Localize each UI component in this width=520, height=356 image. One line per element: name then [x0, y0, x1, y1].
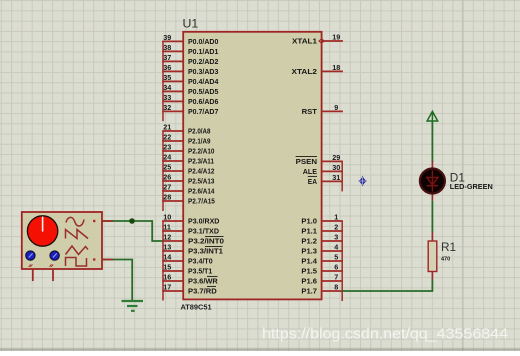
- svg-text:22: 22: [163, 133, 171, 142]
- svg-text:P0.2/AD2: P0.2/AD2: [188, 59, 218, 66]
- svg-text:PSEN: PSEN: [296, 159, 317, 166]
- pin 24 (P2.3/A11): [162, 153, 214, 166]
- svg-text:8: 8: [334, 283, 338, 292]
- knob tick marks: [29, 264, 53, 267]
- ground symbol: [122, 301, 144, 311]
- pin 2 (P1.1): [301, 223, 343, 236]
- svg-text:18: 18: [332, 63, 340, 72]
- pin 4 (P1.3): [301, 243, 343, 256]
- svg-text:P2.7/A15: P2.7/A15: [188, 199, 215, 206]
- pin 25 (P2.4/A12): [162, 163, 214, 176]
- pin 22 (P2.1/A9): [162, 133, 210, 146]
- pin 30 (ALE): [303, 163, 343, 176]
- pin 5 (P1.4): [301, 253, 343, 266]
- svg-text:6: 6: [334, 263, 338, 272]
- svg-text:EA: EA: [308, 179, 317, 186]
- pin 8 (P1.7): [301, 283, 343, 296]
- svg-text:P3.3/INT1: P3.3/INT1: [188, 249, 223, 256]
- svg-text:9: 9: [334, 103, 338, 112]
- pin group ladder (P3): [162, 221, 164, 301]
- XTAL1 pin diamond marker: [319, 39, 324, 43]
- svg-text:P2.0/A8: P2.0/A8: [188, 129, 211, 136]
- svg-text:P2.3/A11: P2.3/A11: [188, 159, 214, 166]
- pin 35 (P0.4/AD4): [162, 73, 218, 86]
- wire: generator OUT+ to P3.2/INT0: [103, 221, 163, 241]
- pin 10 (P3.0/RXD): [162, 213, 219, 226]
- svg-text:XTAL2: XTAL2: [292, 69, 318, 76]
- pin group ladder (P0): [162, 41, 164, 121]
- svg-text:https://blog.csdn.net/qq_43556: https://blog.csdn.net/qq_43556844: [262, 325, 508, 342]
- svg-text:P1.7: P1.7: [301, 289, 317, 296]
- wire: LED cathode to R1: [431, 201, 433, 232]
- resistor R1 leads: [431, 232, 433, 280]
- svg-text:RST: RST: [302, 109, 318, 116]
- pin 1 (P1.0): [301, 213, 343, 226]
- LED D1 body: [420, 169, 445, 194]
- pin 36 (P0.3/AD3): [162, 63, 218, 76]
- pin group ladder (P2): [162, 131, 164, 211]
- svg-text:P0.6/AD6: P0.6/AD6: [188, 99, 218, 106]
- svg-text:P0.0/AD0: P0.0/AD0: [188, 39, 218, 46]
- svg-text:P3.6/WR: P3.6/WR: [188, 279, 218, 286]
- pin 19 (XTAL1): [292, 33, 343, 46]
- LED D1 leads: [431, 161, 433, 201]
- svg-text:25: 25: [163, 163, 171, 172]
- svg-text:P1.6: P1.6: [301, 279, 317, 286]
- svg-text:P2.6/A14: P2.6/A14: [188, 189, 214, 196]
- label 470: [441, 256, 450, 262]
- signal generator instrument body: [22, 212, 102, 269]
- pin 3 (P1.2): [301, 233, 343, 246]
- wire: power to LED anode: [431, 121, 433, 162]
- pin 34 (P0.5/AD5): [162, 83, 218, 96]
- pin 39 (P0.0/AD0): [162, 33, 218, 46]
- svg-text:P1.4: P1.4: [301, 259, 317, 266]
- svg-text:5: 5: [334, 253, 338, 262]
- svg-text:4: 4: [334, 243, 338, 252]
- svg-text:33: 33: [163, 93, 171, 102]
- pin 18 (XTAL2): [292, 63, 343, 76]
- svg-text:39: 39: [163, 33, 171, 42]
- pin 23 (P2.2/A10): [162, 143, 214, 156]
- svg-text:17: 17: [163, 283, 171, 292]
- pin 26 (P2.5/A13): [162, 173, 214, 186]
- svg-text:1: 1: [334, 213, 338, 222]
- svg-text:LED-GREEN: LED-GREEN: [450, 182, 493, 191]
- svg-text:34: 34: [163, 83, 171, 92]
- svg-text:2: 2: [334, 223, 338, 232]
- svg-text:15: 15: [163, 263, 171, 272]
- pin 6 (P1.5): [301, 263, 343, 276]
- svg-text:P0.4/AD4: P0.4/AD4: [188, 79, 218, 86]
- svg-text:P1.5: P1.5: [301, 269, 317, 276]
- pin 31 (EA): [308, 173, 343, 186]
- label D1: [450, 170, 465, 184]
- bottom dark band (jpeg artifact): [0, 348, 520, 351]
- pin 9 (RST): [302, 103, 343, 116]
- svg-text:ALE: ALE: [303, 169, 318, 176]
- svg-text:P2.5/A13: P2.5/A13: [188, 179, 214, 186]
- svg-text:37: 37: [163, 53, 171, 62]
- svg-text:P2.4/A12: P2.4/A12: [188, 169, 214, 176]
- pin 7 (P1.6): [301, 273, 343, 286]
- blue cursor arrow marker: [358, 176, 367, 187]
- svg-text:P3.4/T0: P3.4/T0: [188, 259, 213, 266]
- pin 37 (P0.2/AD2): [162, 53, 218, 66]
- svg-text:35: 35: [163, 73, 171, 82]
- svg-text:13: 13: [163, 243, 171, 252]
- generator bottom pin stub: [102, 259, 113, 261]
- label U1: [183, 17, 199, 31]
- svg-text:P1.2: P1.2: [301, 239, 317, 246]
- svg-text:12: 12: [163, 233, 171, 242]
- svg-text:P1.3: P1.3: [301, 249, 317, 256]
- generator pin origin markers: [93, 220, 95, 261]
- pin 16 (P3.6/WR): [162, 273, 218, 286]
- svg-text:26: 26: [163, 173, 171, 182]
- svg-text:P3.2/INT0: P3.2/INT0: [188, 239, 224, 246]
- label AT89C51: [181, 302, 212, 311]
- pin 28 (P2.7/A15): [162, 193, 215, 206]
- svg-text:P0.3/AD3: P0.3/AD3: [188, 69, 218, 76]
- pin 14 (P3.4/T0): [162, 253, 213, 266]
- svg-text:P3.1/TXD: P3.1/TXD: [188, 229, 219, 236]
- svg-text:P3.0/RXD: P3.0/RXD: [188, 219, 219, 226]
- IC U1 AT89C51 body: [183, 32, 321, 300]
- svg-text:27: 27: [163, 183, 171, 192]
- svg-text:3: 3: [334, 233, 338, 242]
- pin 33 (P0.6/AD6): [162, 93, 218, 106]
- svg-text:P1.0: P1.0: [301, 219, 317, 226]
- pin 12 (P3.2/INT0): [162, 233, 224, 246]
- svg-text:P3.7/RD: P3.7/RD: [188, 289, 217, 296]
- svg-text:21: 21: [163, 123, 171, 132]
- svg-text:36: 36: [163, 63, 171, 72]
- pin 13 (P3.3/INT1): [162, 243, 223, 256]
- svg-text:P0.1/AD1: P0.1/AD1: [188, 49, 218, 56]
- waveform glyph: square: [66, 258, 87, 267]
- wire: R1 to P1.7 pin 8: [343, 280, 433, 292]
- svg-text:P2.1/A9: P2.1/A9: [188, 139, 211, 146]
- label R1: [441, 240, 456, 254]
- svg-text:7: 7: [334, 273, 338, 282]
- svg-text:470: 470: [441, 256, 450, 262]
- generator knob 2 (blue): [26, 251, 35, 260]
- waveform glyph: sine: [66, 217, 84, 226]
- svg-text:11: 11: [163, 223, 171, 232]
- svg-text:16: 16: [163, 273, 171, 282]
- svg-text:14: 14: [163, 253, 171, 262]
- svg-text:U1: U1: [183, 17, 199, 31]
- svg-text:28: 28: [163, 193, 171, 202]
- label LED-GREEN: [450, 182, 493, 191]
- generator main knob: [27, 216, 57, 246]
- svg-text:P2.2/A10: P2.2/A10: [188, 149, 214, 156]
- pin 38 (P0.1/AD1): [162, 43, 218, 56]
- svg-text:19: 19: [332, 33, 340, 42]
- generator top pin stub: [102, 220, 113, 222]
- svg-text:AT89C51: AT89C51: [181, 302, 212, 311]
- pin 29 (PSEN): [296, 153, 343, 166]
- svg-text:P1.1: P1.1: [301, 229, 317, 236]
- pin 11 (P3.1/TXD): [162, 223, 219, 236]
- svg-text:23: 23: [163, 143, 171, 152]
- junction dot: [129, 218, 135, 224]
- svg-text:R1: R1: [441, 240, 456, 254]
- pin group ladder (PSEN-EA): [341, 161, 343, 191]
- svg-text:31: 31: [332, 173, 340, 182]
- pin 15 (P3.5/T1): [162, 263, 212, 276]
- power terminal (VCC arrow): [427, 111, 438, 121]
- waveform glyph: triangle: [66, 246, 89, 255]
- svg-text:P3.5/T1: P3.5/T1: [188, 269, 212, 276]
- generator knob 3 (blue): [50, 251, 59, 260]
- pin group ladder (P1): [341, 221, 343, 301]
- svg-text:XTAL1: XTAL1: [292, 39, 317, 46]
- wire: generator OUT- to ground: [103, 260, 132, 301]
- svg-text:P0.7/AD7: P0.7/AD7: [188, 109, 218, 116]
- pin 32 (P0.7/AD7): [162, 103, 218, 116]
- svg-text:24: 24: [163, 153, 171, 162]
- svg-text:29: 29: [332, 153, 340, 162]
- pin 27 (P2.6/A14): [162, 183, 214, 196]
- svg-text:30: 30: [332, 163, 340, 172]
- svg-text:10: 10: [163, 213, 171, 222]
- resistor R1 body: [428, 241, 437, 272]
- generator bottom legs: [33, 269, 53, 281]
- darker grid column (artifact): [462, 0, 464, 351]
- svg-text:32: 32: [163, 103, 171, 112]
- waveform glyph: sawtooth: [66, 230, 89, 239]
- svg-text:38: 38: [163, 43, 171, 52]
- svg-text:P0.5/AD5: P0.5/AD5: [188, 89, 218, 96]
- pin 21 (P2.0/A8): [162, 123, 210, 136]
- pin 17 (P3.7/RD): [162, 283, 217, 296]
